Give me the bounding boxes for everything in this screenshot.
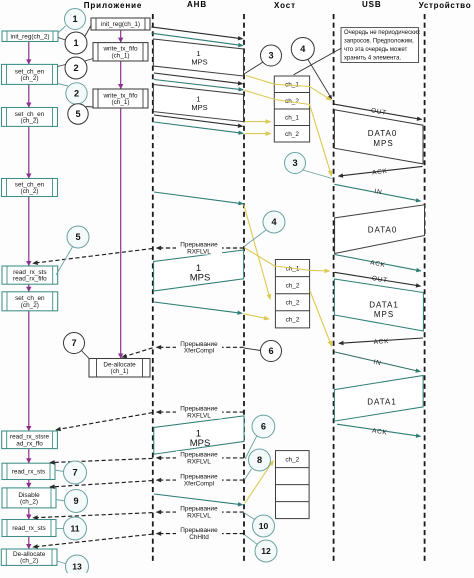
svg-text:AHB: AHB bbox=[187, 0, 207, 9]
connector circle 4b bbox=[244, 230, 266, 247]
svg-text:ch_2: ch_2 bbox=[286, 283, 300, 290]
lifeline USB (dashed) bbox=[333, 14, 335, 563]
svg-text:MPS: MPS bbox=[191, 103, 207, 112]
svg-text:6: 6 bbox=[261, 422, 266, 432]
box De-allocate (ch_1) bbox=[89, 359, 150, 378]
connector circle 13 bbox=[57, 561, 67, 564]
USB packet DATA0 (device to host) bbox=[335, 205, 425, 254]
interrupt Прерывание ChHltd: dashed arrow bbox=[157, 533, 244, 535]
USB ACK #4 bbox=[337, 424, 421, 436]
svg-text:запросов. Предположим,: запросов. Предположим, bbox=[344, 39, 414, 45]
AHB write arrow (teal) #3 bbox=[154, 122, 243, 133]
flow arrowhead ch_2 @291.8 bbox=[26, 287, 31, 292]
svg-text:IN: IN bbox=[374, 188, 383, 196]
interrupt Прерывание XferCompl #1: label bbox=[176, 341, 222, 355]
box init_reg(ch_1) bbox=[91, 18, 150, 30]
yellow trace to stack3 cell1 bbox=[245, 461, 274, 504]
connector circle 8 bbox=[245, 469, 252, 480]
svg-text:7: 7 bbox=[72, 468, 77, 478]
box set_ch_en (ch_2) #3 bbox=[2, 179, 58, 197]
svg-text:9: 9 bbox=[73, 496, 78, 506]
box write_tx_fifo (ch_1) #1 bbox=[93, 43, 148, 61]
flow arrowhead ch_2 @519.5 bbox=[26, 515, 31, 520]
AHB write arrow (black) #2 bbox=[154, 73, 243, 84]
svg-text:10: 10 bbox=[259, 521, 269, 531]
svg-text:ch_2: ch_2 bbox=[286, 300, 300, 307]
connector circle 2a left bbox=[58, 65, 66, 67]
AHB burst trapezoid 1 MPS #2 bbox=[153, 85, 243, 122]
box set_ch_en (ch_2) #1 bbox=[2, 64, 58, 84]
request queue stack #1 bbox=[274, 76, 309, 142]
yellow trace: stack2 ch_1 to OUT start bbox=[244, 248, 329, 272]
svg-text:MPS: MPS bbox=[373, 139, 393, 148]
svg-text:4: 4 bbox=[300, 44, 306, 54]
svg-text:DATA1: DATA1 bbox=[367, 397, 397, 406]
flow arrowhead ch_2 @64.4 bbox=[26, 59, 31, 64]
AHB write arrow (teal) #1 bbox=[151, 33, 242, 45]
svg-text:(ch_2): (ch_2) bbox=[20, 558, 38, 565]
svg-text:ch_1: ch_1 bbox=[285, 115, 299, 122]
interrupt Прерывание RXFLVL #1: label bbox=[176, 241, 222, 255]
circle 7 (a) bbox=[64, 333, 85, 354]
AHB read trapezoid 1 MPS (RX) #2 bbox=[154, 416, 244, 454]
svg-text:11: 11 bbox=[70, 524, 79, 534]
request queue stack #2 bbox=[275, 260, 309, 328]
USB ACK #1 bbox=[339, 166, 423, 176]
connector circle 4a bbox=[307, 58, 332, 99]
svg-text:ACK: ACK bbox=[373, 338, 389, 346]
connector circle 6a bbox=[244, 348, 261, 351]
svg-text:RXFLVL: RXFLVL bbox=[187, 413, 211, 420]
app flow line ch_2 bbox=[28, 41, 30, 549]
svg-text:хранить 4 элемента.: хранить 4 элемента. bbox=[344, 56, 401, 62]
AHB burst trapezoid 1 MPS #1 bbox=[153, 39, 243, 76]
flow arrowhead ch_1 @358.5 bbox=[118, 354, 123, 359]
flow arrowhead ch_2 @178.5 bbox=[26, 174, 31, 179]
yellow trace stack2 to ACK point bbox=[310, 291, 332, 347]
svg-text:MPS: MPS bbox=[190, 438, 211, 449]
circle 5 (a) bbox=[68, 104, 88, 124]
app flow line ch_1 bbox=[120, 30, 122, 359]
svg-text:ch_2: ch_2 bbox=[286, 317, 300, 324]
box Disable (ch_2) bbox=[2, 488, 56, 508]
svg-text:MPS: MPS bbox=[374, 310, 394, 319]
connector circle 9 bbox=[56, 500, 65, 502]
svg-text:DATA0: DATA0 bbox=[368, 129, 398, 138]
svg-text:ch_2: ch_2 bbox=[285, 131, 299, 138]
yellow trace: queue entry ch_1 to OUT start bbox=[246, 76, 331, 101]
svg-text:init_reg(ch_2): init_reg(ch_2) bbox=[10, 34, 49, 41]
svg-text:Приложение: Приложение bbox=[84, 1, 143, 10]
connector circle 3b bbox=[303, 170, 332, 179]
circle 2 (b) bbox=[66, 83, 87, 104]
svg-text:1: 1 bbox=[73, 38, 78, 48]
svg-text:RXFLVL: RXFLVL bbox=[187, 458, 211, 465]
flow arrowhead ch_2 @107.5 bbox=[26, 103, 31, 108]
box set_ch_en (ch_2) #2 bbox=[2, 108, 58, 127]
circle 1 (b) bbox=[65, 32, 87, 54]
lifeline Устройство (dashed) bbox=[424, 14, 426, 563]
USB packet DATA1 MPS bbox=[334, 279, 423, 331]
connector circle 3a bbox=[244, 62, 263, 74]
svg-text:4: 4 bbox=[271, 217, 277, 227]
circle 4 (a) bbox=[291, 38, 314, 61]
circle 13 bbox=[66, 555, 89, 578]
svg-text:RXFLVL: RXFLVL bbox=[187, 248, 211, 255]
svg-text:ChHltd: ChHltd bbox=[189, 534, 209, 541]
svg-text:MPS: MPS bbox=[190, 273, 211, 284]
svg-text:XferCompl: XferCompl bbox=[184, 481, 214, 488]
interrupt Прерывание ChHltd: label bbox=[176, 527, 222, 541]
svg-text:(ch_2): (ch_2) bbox=[21, 302, 39, 309]
yellow arrow into stack1 cell4 bbox=[245, 133, 271, 135]
USB IN token #1 bbox=[334, 184, 420, 201]
svg-text:3: 3 bbox=[292, 158, 297, 168]
circle 2 (a) bbox=[65, 57, 87, 79]
channel disable write arrow bbox=[154, 494, 243, 505]
svg-text:3: 3 bbox=[268, 51, 273, 61]
svg-text:12: 12 bbox=[261, 546, 271, 556]
yellow trace to stack2 cell3 bbox=[244, 205, 270, 300]
USB OUT token #1 bbox=[334, 104, 421, 119]
circle 9 bbox=[65, 490, 88, 513]
circle 4 (b) bbox=[263, 211, 285, 233]
flow arrowhead ch_2 @549 bbox=[26, 544, 31, 549]
circle 6 (b) bbox=[252, 415, 275, 438]
AHB write arrow (teal) #2 bbox=[154, 80, 243, 90]
box De-allocate (ch_2) bbox=[1, 549, 57, 565]
circle 3 (a) bbox=[261, 45, 282, 66]
connector circle 11 bbox=[56, 528, 64, 530]
AHB write arrow (black) #3 bbox=[154, 115, 243, 126]
svg-text:Устройство: Устройство bbox=[419, 1, 472, 10]
AHB write arrow (black) #1 bbox=[151, 27, 242, 39]
circle 7 (b) bbox=[64, 461, 87, 484]
svg-text:(ch_2): (ch_2) bbox=[20, 188, 38, 195]
connector circle 6b bbox=[245, 436, 257, 460]
flow arrowhead ch_2 @431 bbox=[26, 426, 31, 431]
circle 12 bbox=[255, 540, 277, 562]
svg-text:(ch_1): (ch_1) bbox=[111, 52, 129, 59]
svg-text:(ch_2): (ch_2) bbox=[20, 498, 38, 505]
connector circle 2a right bbox=[85, 59, 93, 62]
svg-text:(ch_2): (ch_2) bbox=[20, 118, 38, 125]
circle 6 (a) bbox=[261, 341, 282, 362]
USB ACK #3 bbox=[339, 338, 423, 343]
svg-text:DATA1: DATA1 bbox=[369, 301, 399, 310]
interrupt Прерывание XferCompl #1: dashed arrow bbox=[157, 346, 244, 348]
svg-text:(ch_1): (ch_1) bbox=[111, 99, 129, 106]
svg-text:5: 5 bbox=[75, 109, 80, 119]
flow arrowhead ch_1 @42.6 bbox=[118, 38, 123, 43]
circle 5 (b) bbox=[67, 226, 89, 248]
svg-text:XferCompl: XferCompl bbox=[184, 348, 214, 355]
interrupt Прерывание RXFLVL #4: label bbox=[176, 505, 222, 519]
USB ACK #2 bbox=[335, 255, 421, 271]
svg-text:read_rx_sts: read_rx_sts bbox=[12, 525, 45, 532]
interrupt Прерывание RXFLVL #4: dashed arrow bbox=[157, 511, 244, 513]
USB IN token #2 bbox=[334, 352, 420, 372]
connector circle 1a bbox=[58, 26, 66, 33]
box read_rx_sts read_rx_fifo bbox=[2, 266, 58, 284]
svg-text:13: 13 bbox=[72, 562, 82, 572]
connector circle 7a bbox=[81, 350, 89, 359]
box read_rx_sts #2 bbox=[2, 520, 56, 537]
svg-text:2: 2 bbox=[73, 63, 78, 73]
svg-text:ad_rx_ffo: ad_rx_ffo bbox=[16, 440, 43, 447]
interrupt Прерывание XferCompl #2: label bbox=[176, 473, 222, 487]
connector circle 2b bbox=[58, 84, 69, 87]
circle 11 bbox=[64, 517, 87, 540]
svg-text:MPS: MPS bbox=[191, 58, 207, 67]
circle 1 (a) bbox=[65, 9, 86, 30]
AHB read trapezoid 1 MPS (RX) #1 bbox=[154, 250, 244, 291]
yellow trace: queue entry ch_2 to IN start bbox=[245, 90, 332, 176]
box write_tx_fifo (ch_1) #2 bbox=[93, 89, 148, 108]
yellow arrow into stack1 cell3 bbox=[245, 121, 271, 123]
svg-text:что эта очередь может: что эта очередь может bbox=[344, 47, 407, 53]
interrupt Прерывание RXFLVL #2: dashed arrow bbox=[157, 411, 244, 413]
svg-text:Хост: Хост bbox=[274, 1, 296, 10]
lifeline AHB (dashed) bbox=[152, 14, 154, 563]
box read_rx_sts #1 bbox=[2, 463, 55, 479]
interrupt Прерывание RXFLVL #3: label bbox=[176, 451, 222, 465]
svg-text:7: 7 bbox=[71, 338, 76, 348]
svg-text:1: 1 bbox=[72, 14, 77, 24]
svg-text:8: 8 bbox=[257, 455, 262, 465]
connector circle 5a bbox=[86, 106, 93, 109]
box read_rx_stsre ad_rx_ffo bbox=[2, 431, 58, 449]
flow arrowhead ch_2 @463.2 bbox=[26, 458, 31, 463]
note box: очередь не периодических запросов bbox=[341, 28, 420, 63]
connector circle 1b left bbox=[58, 38, 66, 41]
svg-text:Очередь не периодических: Очередь не периодических bbox=[344, 30, 420, 36]
svg-text:init_reg(ch_1): init_reg(ch_1) bbox=[101, 21, 140, 28]
connector circle 7b bbox=[55, 470, 64, 472]
box init_reg(ch_2) bbox=[2, 31, 58, 42]
svg-text:RXFLVL: RXFLVL bbox=[187, 513, 211, 520]
yellow arrow into stack2 cell4 bbox=[244, 314, 270, 319]
svg-text:2: 2 bbox=[74, 89, 79, 99]
USB packet DATA0 MPS bbox=[334, 110, 423, 164]
svg-text:(ch_1): (ch_1) bbox=[110, 368, 128, 375]
interrupt Прерывание XferCompl #2: dashed arrow bbox=[157, 479, 244, 481]
flow arrowhead ch_1 @89 bbox=[118, 84, 123, 89]
connector circle 1b right bbox=[85, 26, 91, 37]
svg-text:read_rx_fifo: read_rx_fifo bbox=[13, 276, 47, 283]
svg-text:(ch_2): (ch_2) bbox=[20, 75, 38, 82]
set_ch_en write arrow #4 bbox=[154, 302, 242, 313]
circle 10 bbox=[253, 515, 275, 537]
box set_ch_en (ch_2) #4 bbox=[2, 292, 58, 311]
connector circle 12 bbox=[245, 535, 258, 545]
circle 8 bbox=[249, 449, 271, 471]
svg-text:read_rx_sts: read_rx_sts bbox=[12, 469, 45, 476]
svg-text:USB: USB bbox=[362, 0, 382, 9]
flow arrowhead ch_2 @266 bbox=[26, 261, 31, 266]
circle 3 (b) bbox=[285, 153, 306, 174]
svg-text:ch_2: ch_2 bbox=[285, 456, 299, 463]
interrupt Прерывание RXFLVL #2: label bbox=[176, 405, 222, 419]
connector circle 10 bbox=[245, 513, 256, 520]
USB OUT token #2 bbox=[335, 272, 421, 286]
set_ch_en write arrow #3 bbox=[154, 192, 243, 204]
interrupt Прерывание RXFLVL #1: dashed arrow bbox=[157, 247, 244, 249]
interrupt Прерывание RXFLVL #3: dashed arrow bbox=[157, 457, 244, 459]
connector circle 5b bbox=[56, 246, 73, 275]
note pointer line bbox=[294, 48, 342, 75]
flow arrowhead ch_2 @487.9 bbox=[26, 483, 31, 488]
request queue stack #3 bbox=[276, 451, 310, 519]
svg-text:6: 6 bbox=[268, 346, 273, 356]
USB packet DATA1 (device to host) bbox=[334, 376, 423, 422]
svg-text:DATA0: DATA0 bbox=[368, 225, 398, 234]
svg-text:5: 5 bbox=[75, 232, 80, 242]
lifeline Хост (dashed) bbox=[243, 14, 245, 563]
